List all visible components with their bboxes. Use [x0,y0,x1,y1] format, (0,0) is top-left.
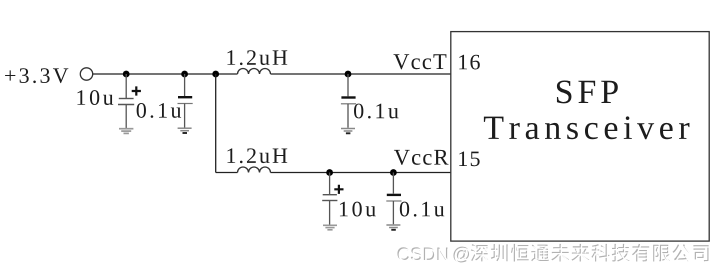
power input terminal [80,68,92,80]
SFP transceiver module box [451,32,709,242]
pin number 16 [459,55,480,70]
capacitor 0.1u (VccT rail) [341,74,356,128]
wire: top inductor to SFP pin 16 [271,73,452,75]
net label VccR [394,150,449,165]
inductor L (VccT) 1.2uH [238,69,271,75]
net label +3.3V [5,68,68,83]
net label VccT [393,54,446,69]
capacitor 10u (input bulk, polarized) [118,74,141,128]
ground (below VccT 0.1u) [341,129,355,134]
capacitor 0.1u (VccR rail) [386,173,401,225]
wire: VccR rail from branch to inductor [216,172,238,174]
value label 10u [77,90,113,105]
junction: VccT 0.1u tap [345,71,352,78]
node: branch split [212,71,219,78]
pin number 15 [459,151,479,166]
capacitor 0.1u (input, first) [178,74,193,128]
capacitor 10u (VccR rail, polarized) [322,173,343,225]
ground (below input 10u) [119,129,133,134]
value label 10u (VccR) [340,202,376,217]
junction: VccR 0.1u tap [390,169,397,176]
wire: terminal to branch node (top rail) [93,73,238,75]
value label 1.2uH (bottom) [227,148,287,163]
wire: branch split down to VccR rail [215,74,217,173]
module name: Transceiver [484,116,690,139]
wire: bottom inductor to SFP pin 15 [271,172,452,174]
value label 0.1u [137,103,181,118]
inductor L (VccR) 1.2uH [238,167,271,172]
junction: first 0.1u tap [181,71,188,78]
ground (below VccR 0.1u) [386,225,400,230]
value label 0.1u (VccT) [354,104,398,119]
value label 1.2uH (top) [227,50,287,65]
watermark CSDN @深圳恒通未来科技有限公司 [397,244,709,264]
ground (below VccR 10u) [323,225,337,230]
junction: VccR 10u tap [326,169,333,176]
value label 0.1u (VccR) [400,202,444,217]
module name: SFP [557,80,618,103]
ground (below first 0.1u) [178,128,192,133]
junction: 10u tap [123,71,130,78]
